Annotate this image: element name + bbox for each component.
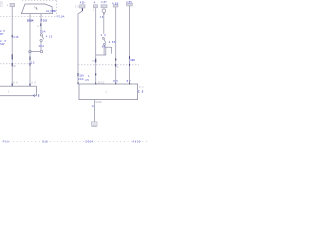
svg-text:30: 30 xyxy=(75,5,80,8)
svg-text:4 87: 4 87 xyxy=(101,0,107,4)
svg-text:1: 1 xyxy=(7,4,9,7)
svg-text:1: 1 xyxy=(88,74,90,78)
svg-text:15: 15 xyxy=(100,15,104,19)
svg-text:G104: G104 xyxy=(27,18,34,22)
svg-text:51: 51 xyxy=(0,4,3,7)
svg-text:G304: G304 xyxy=(85,140,93,144)
svg-text:4 85: 4 85 xyxy=(109,40,116,44)
svg-text:RT: RT xyxy=(0,32,4,36)
svg-text:30: 30 xyxy=(101,33,107,37)
svg-text:G: G xyxy=(92,104,94,108)
svg-text:F10A: F10A xyxy=(57,15,64,19)
svg-text:G10: G10 xyxy=(42,140,48,144)
svg-text:F32: F32 xyxy=(41,18,48,22)
svg-text:4: 4 xyxy=(94,0,96,4)
svg-text:4 15: 4 15 xyxy=(46,35,53,39)
svg-text:2: 2 xyxy=(37,25,39,28)
svg-text:30A: 30A xyxy=(40,30,46,34)
svg-text:C104: C104 xyxy=(130,58,135,62)
svg-text:G304: G304 xyxy=(95,101,102,104)
svg-text:86: 86 xyxy=(13,81,18,84)
svg-text:F10: F10 xyxy=(3,140,9,144)
svg-text:X1: X1 xyxy=(139,86,144,89)
svg-text:A1_0588: A1_0588 xyxy=(46,9,56,13)
svg-text:15A: 15A xyxy=(79,73,84,77)
svg-text:30A: 30A xyxy=(38,44,44,48)
svg-text:4 30: 4 30 xyxy=(80,0,85,4)
svg-text:4 15: 4 15 xyxy=(13,35,19,39)
svg-text:87: 87 xyxy=(127,79,132,83)
svg-text:2: 2 xyxy=(117,66,119,69)
svg-text:2.5: 2.5 xyxy=(85,78,89,82)
svg-text:30A: 30A xyxy=(78,77,84,81)
svg-text:30: 30 xyxy=(31,81,36,84)
svg-text:SW: SW xyxy=(0,42,5,46)
svg-text:1: 1 xyxy=(8,91,10,94)
svg-text:1: 1 xyxy=(93,9,95,12)
svg-text:86: 86 xyxy=(102,44,107,48)
svg-text:K100: K100 xyxy=(133,140,141,144)
svg-text:15: 15 xyxy=(31,60,35,64)
svg-text:15: 15 xyxy=(13,65,16,68)
svg-text:C2: C2 xyxy=(138,90,144,94)
svg-text:1: 1 xyxy=(105,91,107,94)
